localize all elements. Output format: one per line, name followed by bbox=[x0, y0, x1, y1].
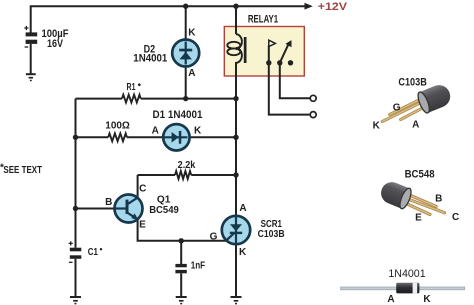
svg-text:BC549: BC549 bbox=[149, 205, 179, 216]
svg-text:K: K bbox=[194, 126, 202, 137]
svg-text:2.2k: 2.2k bbox=[178, 160, 196, 171]
svg-text:B: B bbox=[105, 197, 112, 208]
svg-text:C103B: C103B bbox=[398, 76, 427, 88]
svg-text:C1: C1 bbox=[88, 247, 99, 258]
svg-text:SEE TEXT: SEE TEXT bbox=[3, 165, 42, 176]
svg-text:C: C bbox=[139, 183, 146, 194]
svg-text:K: K bbox=[373, 120, 381, 131]
svg-text:K: K bbox=[423, 294, 431, 305]
svg-text:B: B bbox=[435, 193, 442, 204]
svg-text:G: G bbox=[393, 102, 401, 113]
svg-text:C: C bbox=[452, 212, 459, 223]
svg-text:A: A bbox=[152, 126, 159, 137]
svg-text:1N4001: 1N4001 bbox=[133, 53, 167, 65]
svg-text:E: E bbox=[415, 213, 422, 224]
svg-text:R1: R1 bbox=[127, 82, 136, 93]
svg-text:E: E bbox=[139, 220, 146, 231]
svg-text:RELAY1: RELAY1 bbox=[248, 13, 278, 25]
svg-text:D1 1N4001: D1 1N4001 bbox=[153, 109, 203, 121]
svg-text:A: A bbox=[239, 203, 246, 214]
svg-text:BC548: BC548 bbox=[405, 169, 435, 181]
svg-text:A: A bbox=[387, 294, 394, 305]
svg-text:G: G bbox=[210, 231, 218, 242]
svg-text:K: K bbox=[239, 247, 247, 258]
svg-text:16V: 16V bbox=[47, 38, 64, 50]
svg-text:1nF: 1nF bbox=[191, 261, 205, 272]
svg-text:1N4001: 1N4001 bbox=[388, 268, 425, 280]
svg-text:A: A bbox=[412, 120, 419, 131]
svg-text:C103B: C103B bbox=[258, 229, 285, 240]
svg-text:100Ω: 100Ω bbox=[105, 120, 130, 131]
svg-text:+12V: +12V bbox=[318, 1, 348, 13]
svg-text:K: K bbox=[188, 28, 196, 39]
svg-text:A: A bbox=[188, 68, 195, 79]
